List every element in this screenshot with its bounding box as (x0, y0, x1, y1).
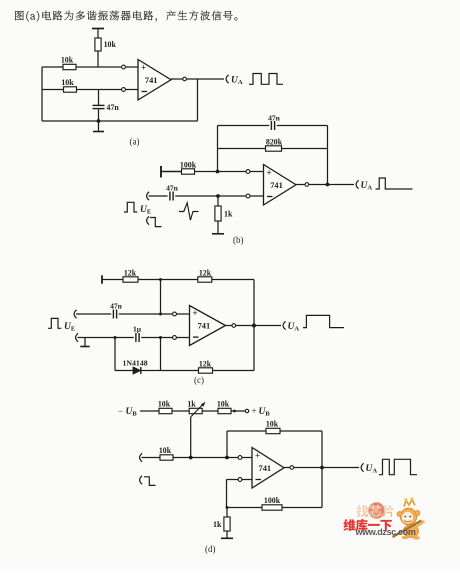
terminal UA (b) (356, 180, 359, 188)
svg-text:10k: 10k (217, 400, 230, 409)
wire output feedback vertical (c) (253, 280, 255, 371)
input circle - (c) (173, 336, 177, 340)
waveform output pulse (c) (303, 315, 344, 327)
op-amp U2 741 (b) (264, 165, 297, 206)
svg-text:10k: 10k (104, 40, 117, 49)
resistor 100k (b) (180, 161, 197, 175)
output node circle (a) (183, 77, 187, 81)
wire - input line left (c) (78, 337, 134, 339)
wire + input line right (c) (119, 313, 173, 315)
svg-text:741: 741 (259, 464, 272, 473)
wire (149, 195, 168, 197)
wire divider vertical (c) (160, 280, 162, 315)
wire feedback left vertical (b) (217, 126, 219, 172)
wire - input line right (c) (141, 337, 172, 339)
wire (217, 196, 219, 206)
wire (236, 325, 281, 327)
wire wiper vertical (d) (190, 417, 192, 458)
potentiometer wiper arrow (d) (191, 402, 205, 417)
wire input line right (d) (173, 457, 238, 459)
watermark text zhao xin pian (356, 505, 393, 517)
svg-text:12k: 12k (199, 360, 212, 369)
ground (b) (212, 233, 224, 235)
wire top feedback rail left (b) (218, 125, 270, 127)
wire (126, 89, 139, 91)
svg-text:(c): (c) (194, 375, 204, 385)
ground (d) (221, 537, 233, 539)
waveform step (b) (150, 218, 162, 227)
svg-text:1k: 1k (224, 210, 233, 219)
wire top line (d) (140, 410, 159, 412)
resistor 10k input (d) (159, 446, 173, 460)
output node circle (d) (290, 466, 294, 470)
waveform differentiated spike (b) (179, 203, 199, 220)
resistor 820k (b) (266, 138, 283, 152)
input circle - (d) (238, 478, 242, 482)
svg-text:−: − (118, 406, 123, 416)
wire (217, 221, 219, 234)
resistor 10k feedback (d) (266, 420, 280, 434)
wire bottom rail mid (c) (141, 370, 199, 372)
node junction feedback/+input (b) (216, 170, 220, 174)
wire (98, 109, 100, 121)
wire (202, 410, 218, 412)
terminal circle +UB (d) (245, 409, 248, 412)
input circle + (a) (122, 65, 126, 69)
capacitor 47n (a) (93, 103, 120, 112)
terminal UE upper (c) (74, 310, 77, 318)
svg-text:10k: 10k (266, 420, 279, 429)
wire (242, 479, 252, 481)
node junction wiper/input (d) (189, 456, 193, 460)
svg-text:+: + (193, 308, 198, 318)
node junction output (c) (252, 324, 256, 328)
waveform step (d) (144, 477, 156, 486)
svg-text:741: 741 (198, 322, 211, 331)
wire (98, 90, 100, 106)
wire to + input (b) (195, 171, 247, 173)
resistor 1k (d) (213, 517, 230, 531)
wire bottom rail left (d) (227, 507, 262, 509)
wire to - input (b) (175, 195, 246, 197)
wire feedback right vertical lower (d) (321, 468, 323, 508)
wire left vertical (a) (41, 67, 43, 121)
svg-text:12k: 12k (124, 269, 137, 278)
svg-text:+: + (252, 406, 257, 416)
wire feedback vertical (a) (197, 79, 199, 121)
svg-text:(a): (a) (130, 137, 140, 147)
node junction diode left (c) (114, 336, 117, 339)
svg-text:47n: 47n (166, 184, 179, 193)
op-amp U1 741 (a) (138, 60, 171, 101)
watermark mascot (393, 497, 425, 539)
waveform output pulse (b) (376, 178, 413, 189)
wire - input vertical (d) (226, 480, 228, 508)
wire (161, 171, 182, 173)
node junction 1k/100k (d) (226, 506, 229, 509)
wire input line (d) (142, 457, 161, 459)
wire (172, 410, 189, 412)
potentiometer 1k body (d) (187, 400, 202, 414)
waveform output (d) (379, 459, 417, 474)
capacitor 1u (c) (133, 325, 142, 343)
resistor 12k top-right (c) (198, 269, 212, 283)
wire feedback right vertical (b) (327, 126, 329, 185)
svg-text:741: 741 (270, 181, 283, 190)
wire (250, 195, 264, 197)
svg-text:10k: 10k (158, 400, 171, 409)
capacitor 47n input (b) (166, 184, 179, 201)
terminal bar top rail (c) (101, 275, 103, 283)
resistor 10k vertical (a) (95, 38, 117, 51)
watermark logo circle (368, 502, 384, 518)
svg-text:1μ: 1μ (133, 325, 142, 334)
wire top rail mid (c) (138, 279, 198, 281)
svg-text:+: + (255, 450, 260, 460)
wire (231, 410, 245, 412)
waveform UE pulse (b) (124, 202, 137, 212)
svg-text:47n: 47n (268, 114, 281, 123)
svg-text:47n: 47n (110, 302, 123, 311)
waveform UE pulse (c) (48, 318, 61, 328)
output node circle (b) (305, 183, 309, 187)
svg-text:1k: 1k (187, 400, 196, 409)
node junction 1k/-input (b) (216, 194, 220, 198)
wire output (d) (284, 467, 290, 469)
wire (177, 337, 190, 339)
diode 1N4148 (c) (123, 358, 148, 374)
op-amp U3 741 (c) (190, 306, 226, 346)
terminal bar input (b) (160, 166, 162, 178)
resistor 12k bottom (c) (199, 360, 213, 374)
wire bottom feedback rail (a) (42, 120, 198, 122)
wire top feedback rail right (b) (277, 125, 328, 127)
heading Chinese text (15, 11, 237, 22)
resistor 10k lower (a) (61, 78, 76, 92)
output node circle (c) (232, 324, 236, 328)
svg-text:+: + (267, 167, 272, 177)
resistor 1k (b) (215, 206, 233, 221)
svg-text:10k: 10k (61, 78, 74, 87)
svg-text:(b): (b) (233, 235, 244, 245)
terminal trigger annotation (d) (140, 476, 143, 484)
terminal bar top (a) (92, 28, 104, 30)
svg-text:(d): (d) (205, 544, 216, 554)
wire output (a) (171, 78, 183, 80)
node junction integrator (c) (159, 336, 162, 339)
node junction output/feedback (b) (326, 183, 330, 187)
wire bottom rail (c) (115, 370, 133, 372)
svg-text:10k: 10k (159, 446, 172, 455)
wire 820k rail left (b) (218, 148, 266, 150)
wire feedback right vertical upper (d) (321, 431, 323, 468)
node junction (a) cap/rail (97, 119, 101, 123)
node junction output/feedback (d) (320, 466, 324, 470)
watermark red text weiku (343, 519, 391, 531)
ground stub (c) (80, 338, 90, 347)
wire - input stub (d) (227, 479, 239, 481)
input circle + (c) (173, 312, 177, 316)
terminal UA (a) (226, 75, 229, 83)
input circle + (d) (238, 456, 242, 460)
svg-text:100k: 100k (180, 161, 197, 170)
terminal UE lower (c) (76, 333, 79, 341)
wire top rail (c) (102, 279, 123, 281)
node junction +input (c) (159, 313, 162, 316)
svg-text:10k: 10k (61, 56, 74, 65)
wire bottom rail right (d) (282, 507, 322, 509)
wire non-inverting input line (a) (42, 66, 122, 68)
terminal UA (d) (361, 463, 364, 471)
wire (126, 66, 139, 68)
wire diode branch vertical (c) (114, 338, 116, 371)
terminal UE (b) (147, 192, 150, 200)
svg-text:www.dzsc.com: www.dzsc.com (355, 527, 416, 537)
wire bottom rail right (c) (213, 370, 255, 372)
wire integrator vertical (c) (160, 338, 162, 371)
svg-text:1k: 1k (213, 520, 222, 529)
node junction divider top (c) (159, 278, 162, 281)
wire inverting input line (a) (42, 89, 122, 91)
wire (250, 171, 264, 173)
terminal UA (c) (283, 321, 286, 329)
wire top feedback rail (d) (227, 430, 266, 432)
wire top feedback rail right (d) (280, 430, 322, 432)
svg-text:100k: 100k (264, 496, 281, 505)
wire (309, 184, 354, 186)
wire (187, 78, 225, 80)
wire (97, 51, 99, 67)
svg-text:+: + (141, 62, 146, 72)
svg-text:47n: 47n (107, 103, 120, 112)
svg-text:1N4148: 1N4148 (123, 358, 148, 367)
node junction top line (d) (233, 410, 236, 413)
input circle + (b) (246, 170, 250, 174)
resistor 100k (d) (262, 496, 282, 510)
input circle - (b) (246, 194, 250, 198)
wire (294, 467, 359, 469)
input circle - (a) (122, 88, 126, 92)
capacitor 47n (c) (110, 302, 123, 319)
wire (177, 313, 190, 315)
terminal UE lower (b) (147, 216, 150, 224)
resistor 10k top-right (d) (217, 400, 231, 414)
resistor 10k top-left (d) (158, 400, 172, 414)
wire output (c) (226, 325, 232, 327)
terminal input (d) (140, 453, 143, 461)
wire + input line left (c) (76, 313, 111, 315)
capacitor 47n feedback (b) (268, 114, 281, 131)
svg-text:12k: 12k (199, 269, 212, 278)
wire (97, 29, 99, 39)
svg-text:820k: 820k (266, 138, 283, 147)
ground (a) (93, 121, 104, 132)
wire 820k rail right (b) (282, 148, 328, 150)
wire (242, 457, 252, 459)
node junction feedback/+input (d) (225, 456, 229, 460)
resistor 12k top-left (c) (123, 269, 138, 283)
wire feedback left vertical (d) (226, 431, 228, 458)
wire (226, 508, 228, 518)
wire output (b) (296, 184, 305, 186)
wire (226, 531, 228, 538)
op-amp U4 741 (d) (252, 448, 284, 489)
svg-text:741: 741 (145, 76, 158, 85)
resistor 10k upper (a) (61, 56, 76, 70)
wire top rail right (c) (212, 279, 254, 281)
waveform square wave (a) (249, 74, 283, 85)
